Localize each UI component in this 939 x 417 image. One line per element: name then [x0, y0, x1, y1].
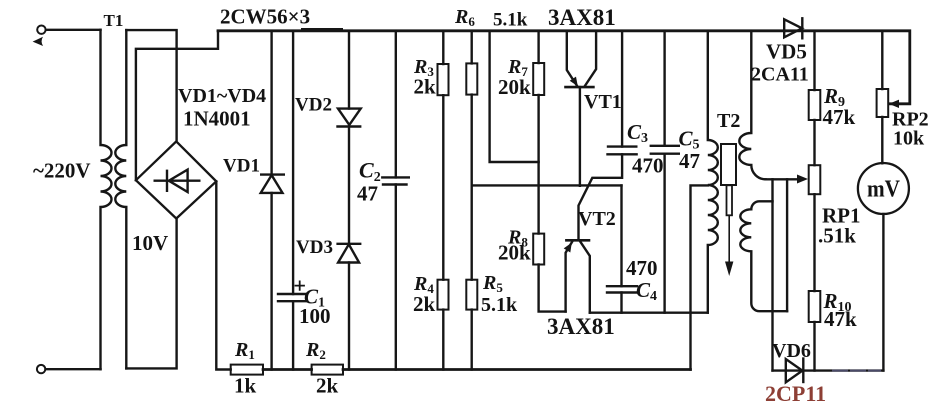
wire bridge DC- to bottom bus	[216, 181, 230, 369]
svg-text:1N4001: 1N4001	[183, 107, 251, 131]
svg-text:2k: 2k	[413, 292, 436, 316]
zener diode VD3 symbol	[338, 244, 361, 263]
svg-text:100: 100	[299, 304, 331, 328]
wire bridge DC+ to top bus	[136, 31, 218, 180]
zener diode VD1 column	[270, 31, 272, 370]
potentiometer RP2 column	[881, 31, 883, 164]
svg-text:VT2: VT2	[578, 208, 616, 230]
resistor R7/R8 column	[539, 31, 566, 312]
svg-text:2k: 2k	[316, 374, 339, 398]
capacitor C3 plates	[608, 147, 637, 155]
top bus	[218, 31, 910, 104]
svg-text:2CW56×3: 2CW56×3	[220, 5, 310, 29]
svg-text:C3: C3	[627, 120, 648, 146]
svg-text:R1: R1	[234, 339, 255, 362]
resistor R9	[809, 90, 821, 120]
wire T2 primary tap to ground	[691, 185, 708, 369]
svg-text:VD1~VD4: VD1~VD4	[178, 85, 266, 107]
wire VD6 row	[773, 369, 884, 371]
svg-text:VT1: VT1	[584, 91, 622, 113]
transformer T2 secondary upper winding	[739, 31, 765, 180]
transformer T2 primary winding	[708, 31, 718, 313]
wire bus to R7 bottom bracket	[490, 31, 539, 162]
potentiometer RP2	[877, 89, 889, 117]
svg-text:VD6: VD6	[772, 340, 811, 362]
svg-text:R5: R5	[482, 272, 503, 295]
svg-text:47k: 47k	[823, 105, 856, 129]
svg-text:T1: T1	[104, 11, 124, 30]
resistor R10	[809, 291, 821, 322]
transformer T1 secondary winding	[115, 30, 126, 368]
svg-text:3AX81: 3AX81	[548, 5, 616, 30]
bridge rectifier VD1~VD4 diamond	[136, 141, 216, 218]
capacitor C5 column	[663, 31, 665, 313]
wire B tap column	[786, 179, 788, 311]
zener diode VD2 symbol	[338, 109, 361, 127]
svg-text:470: 470	[632, 154, 664, 178]
svg-text:10k: 10k	[893, 128, 925, 150]
resistor R3/R4 column	[442, 31, 444, 370]
capacitor C3 column	[621, 31, 623, 147]
svg-text:47k: 47k	[824, 307, 857, 331]
wire VT2 collector row	[590, 312, 708, 314]
transistor VT1 collector	[585, 31, 597, 87]
diode VD6 symbol	[786, 359, 804, 383]
wire T2 tap to RP1 wiper	[766, 178, 798, 180]
transistor VT2 emitter arrow	[564, 243, 572, 253]
transistor VT1 emitter arrow	[570, 77, 578, 87]
wire A tap column to VD6	[771, 179, 773, 370]
bridge inner diode symbol	[155, 170, 200, 192]
transformer T2 secondary lower winding	[740, 201, 787, 311]
svg-text:5.1k: 5.1k	[481, 294, 518, 316]
svg-text:2CP11: 2CP11	[765, 381, 826, 406]
capacitor C1 column	[292, 31, 294, 370]
zener diode VD1 symbol	[261, 175, 284, 193]
capacitor C2 plates	[382, 177, 409, 184]
resistor R4	[438, 280, 449, 310]
transistor VT2 collector	[580, 242, 589, 313]
capacitor C4 column	[620, 185, 622, 312]
wire T1 secondary bottom to bridge AC bottom	[126, 220, 176, 369]
svg-text:R6: R6	[454, 6, 475, 29]
zener diode VD2/VD3 column	[348, 31, 350, 370]
capacitor C2 column	[395, 31, 397, 370]
RP2 wiper arrow	[889, 100, 899, 108]
svg-text:VD3: VD3	[296, 237, 333, 258]
svg-text:R2: R2	[305, 339, 326, 362]
svg-text:20k: 20k	[498, 241, 531, 265]
capacitor C1 plates	[278, 294, 306, 301]
resistor R6/R5 column	[471, 31, 473, 370]
capacitor C5 plates	[651, 146, 679, 154]
bottom bus R2 to ground tap	[343, 368, 691, 371]
potentiometer RP1	[809, 165, 821, 194]
resistor R9/RP1/R10 column	[813, 31, 815, 371]
svg-text:VD5: VD5	[766, 40, 807, 64]
svg-text:47: 47	[357, 182, 378, 206]
svg-text:mV: mV	[867, 177, 901, 203]
resistor R6	[466, 63, 477, 94]
wire bottom terminal to T1 primary	[46, 368, 101, 370]
resistor R7	[533, 63, 544, 95]
wire top terminal to T1 primary	[46, 29, 101, 31]
transistor VT1 emitter	[567, 31, 578, 87]
bottom bus R1 to R2	[263, 368, 312, 371]
svg-text:2CA11: 2CA11	[751, 64, 809, 86]
transformer T2 adjustable core slug	[721, 144, 736, 276]
svg-text:47: 47	[679, 149, 700, 173]
faded segment right of VD6	[833, 370, 880, 372]
svg-text:2k: 2k	[414, 75, 437, 99]
meter mV	[858, 163, 909, 214]
wire meter bottom	[882, 214, 884, 371]
C1 plus sign	[296, 281, 305, 290]
svg-text:10V: 10V	[132, 231, 168, 255]
resistor R5	[466, 280, 477, 310]
transistor VT1 base lead	[579, 87, 581, 186]
svg-text:~220V: ~220V	[33, 159, 91, 183]
svg-text:VD2: VD2	[295, 95, 332, 116]
svg-text:C4: C4	[636, 278, 657, 304]
resistor R2	[312, 365, 343, 375]
svg-text:VD1: VD1	[223, 156, 260, 177]
resistor R8	[533, 234, 544, 265]
terminal bottom-left	[37, 365, 45, 373]
diode VD5 symbol on top bus	[784, 18, 802, 38]
terminal top-left	[33, 26, 46, 47]
resistor R1	[231, 365, 263, 375]
transistor VT1 base bar	[566, 86, 594, 89]
transistor VT2 base bar	[566, 239, 589, 242]
resistor R3	[438, 64, 449, 95]
svg-text:5.1k: 5.1k	[493, 10, 528, 31]
wire T1 secondary top to bridge AC top	[126, 30, 176, 140]
node wire R6 tap to VT1 base and C4	[472, 184, 622, 186]
transistor VT2 emitter	[566, 242, 572, 312]
svg-text:470: 470	[626, 256, 658, 280]
svg-text:.51k: .51k	[818, 224, 856, 248]
transformer T1 primary winding	[101, 30, 112, 369]
RP1 wiper arrow	[797, 175, 808, 184]
wire C3 to VT2 base (crossover slant)	[579, 154, 623, 240]
svg-text:3AX81: 3AX81	[547, 314, 615, 339]
svg-text:1k: 1k	[234, 374, 257, 398]
svg-text:20k: 20k	[498, 75, 531, 99]
capacitor C4 plates	[607, 286, 637, 292]
svg-text:T2: T2	[717, 110, 740, 132]
